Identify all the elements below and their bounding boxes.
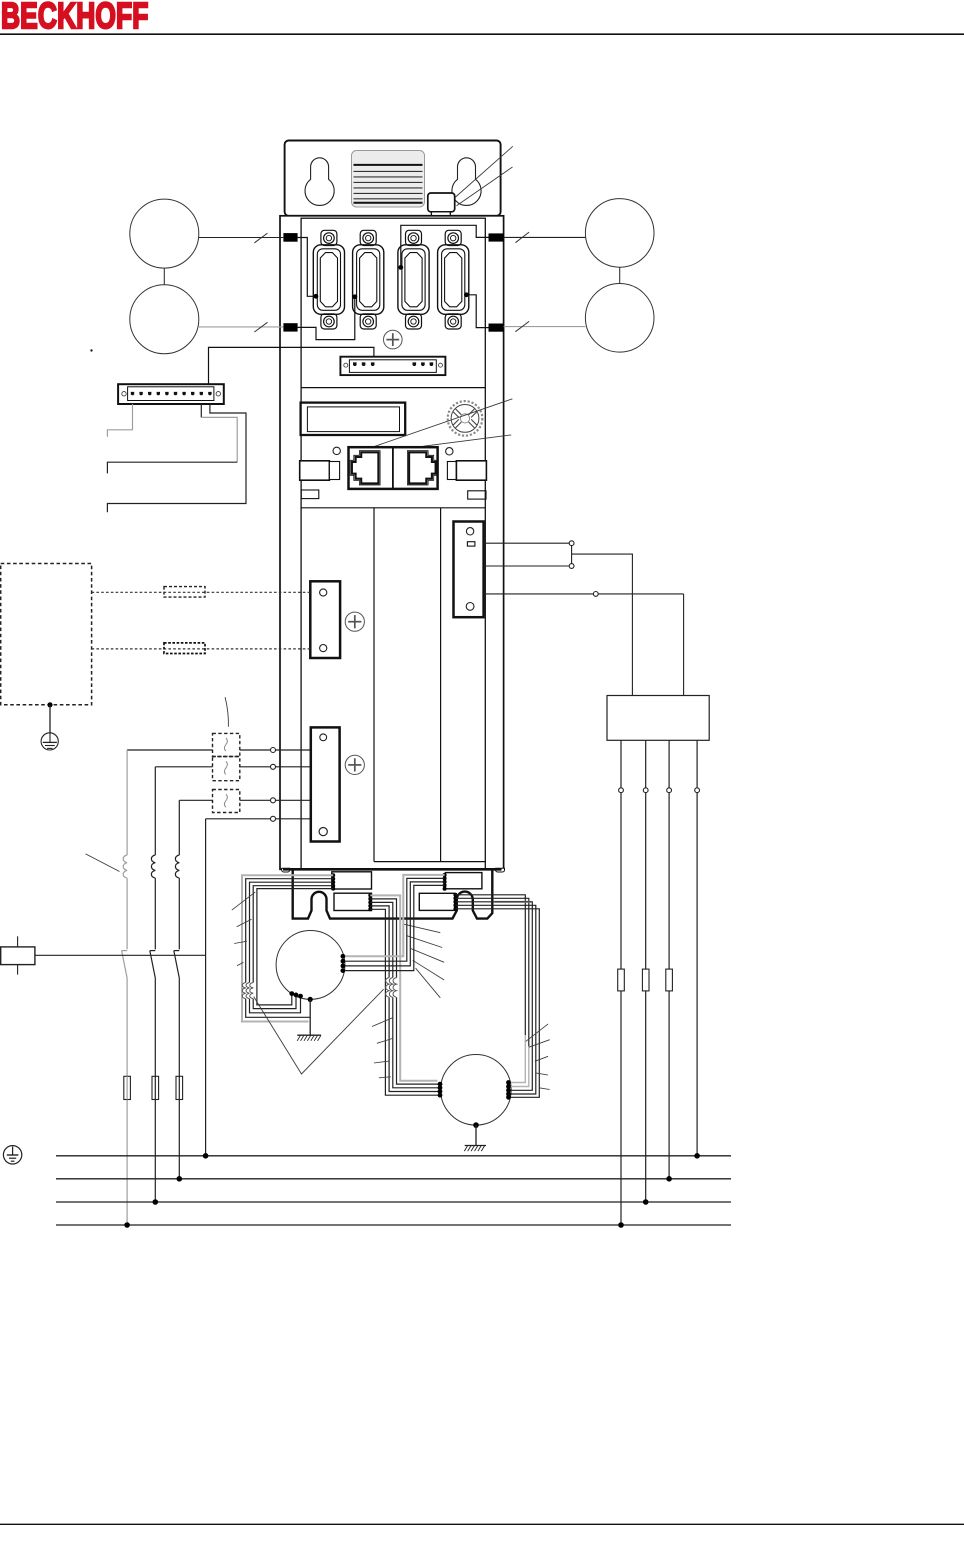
BECKHOFF logo xyxy=(1,0,149,36)
node output3-bus xyxy=(666,1176,672,1182)
left I/O terminal strip xyxy=(118,384,224,404)
header rule xyxy=(0,33,964,35)
node L1-bus xyxy=(124,1222,130,1228)
wire X301 to left terminal strip xyxy=(209,347,374,384)
fan callout leader 2 xyxy=(457,167,513,206)
mains phase line 3 xyxy=(174,800,180,1179)
node output4-bus xyxy=(694,1153,700,1159)
cable 3 wire 4 xyxy=(455,905,535,1094)
cable 1 wire 5 xyxy=(257,889,333,1005)
terminal section bottom edge xyxy=(374,861,485,863)
rj45 callout leader 2 xyxy=(424,435,512,446)
connector X9 (24V aux) xyxy=(454,522,484,618)
device top mounting plate xyxy=(285,141,501,216)
cable 3 wire 5 xyxy=(455,909,539,1098)
cable plug block 3 (motor2 power) xyxy=(419,893,454,910)
supply bus line 2 xyxy=(56,1178,731,1180)
cable 4 shield (grey) xyxy=(345,875,444,956)
pushbutton right xyxy=(447,462,456,480)
protective earth symbol bus xyxy=(3,1146,21,1164)
terminal circle BTB b xyxy=(569,564,574,569)
mains wire L1 to X0 xyxy=(240,749,311,751)
fuse-switch callout leader xyxy=(225,697,228,727)
link between circle3 and circle4 xyxy=(619,267,621,283)
node output1-bus xyxy=(618,1222,624,1228)
block1 pins xyxy=(331,873,335,890)
callout circle 3 xyxy=(585,199,654,268)
footer rule xyxy=(0,1523,964,1525)
internal wire clamp1 to X1 xyxy=(298,238,316,297)
block3 pins xyxy=(453,893,457,911)
mains phase line 2 xyxy=(150,767,156,1202)
shield clamp ferrite right 2 xyxy=(489,324,504,332)
I/O wire B xyxy=(200,404,202,418)
supply box output 4 xyxy=(695,740,700,1156)
cable2 fan callout ticks xyxy=(403,924,444,998)
I/O wire A (grey) xyxy=(107,404,132,437)
device body outline xyxy=(280,216,504,870)
supply box output 2 xyxy=(642,740,649,1202)
label plate right xyxy=(468,491,486,499)
dashed control wire 2 xyxy=(92,648,311,650)
mains wire L2 to X0 xyxy=(240,766,311,768)
wire 24V to supply box xyxy=(683,594,685,696)
cable1 callout ticks xyxy=(232,892,256,966)
protective earth symbol PLC xyxy=(41,733,58,750)
fuse F1 xyxy=(124,1076,131,1099)
pushbutton left xyxy=(300,461,330,480)
motor1 terminal nodes xyxy=(289,991,312,1002)
cable line circle1 to clamp xyxy=(199,237,284,239)
X9 wire BTB contact a xyxy=(484,542,569,544)
node L3-bus xyxy=(177,1176,183,1182)
cable 1 shield (grey) xyxy=(242,875,333,1021)
RJ45 double jack block xyxy=(349,447,438,489)
cable 3 wire 3 xyxy=(455,902,532,1091)
node X1 pin xyxy=(314,294,319,299)
cable3 callout ticks xyxy=(526,1024,550,1090)
mains wire PE to X0 xyxy=(206,818,311,820)
cable plug block 2 (motor1 power) xyxy=(334,893,372,910)
cable 2 wire 2 xyxy=(370,899,440,1084)
I/O wire C xyxy=(107,404,246,512)
cable plug block 4 (motor2 feedback) xyxy=(445,873,482,889)
cable 1 wire 4 xyxy=(253,886,333,1009)
cable 2 wire 5 xyxy=(370,909,440,1095)
cable 2 ferrite squiggles xyxy=(386,978,397,998)
cable line circle2 to clamp (grey) xyxy=(199,326,284,328)
D-sub connector X2 xyxy=(353,230,384,329)
D-sub connector X1 xyxy=(313,230,344,329)
main contactor coil xyxy=(1,947,35,965)
node X3 pin xyxy=(398,265,403,270)
node X2 pin xyxy=(352,294,357,299)
cable 3 wire 1 xyxy=(455,895,525,1035)
panel divider below connector section xyxy=(301,387,485,389)
terminal circle 24V xyxy=(593,592,598,597)
motor 2 xyxy=(441,1055,512,1126)
X301 pins xyxy=(353,362,433,366)
keyhole mounting slot left xyxy=(305,158,334,206)
cable break slash 4 xyxy=(515,321,529,331)
cable2 left callout ticks xyxy=(372,1018,393,1078)
LED left xyxy=(333,447,340,454)
fuse F3 xyxy=(176,1076,183,1099)
cable line clamp to circle4 (grey) xyxy=(504,326,586,328)
node L2-bus xyxy=(153,1199,159,1205)
internal wire clamp2 to X2 xyxy=(298,297,355,340)
I/O strip pins xyxy=(131,392,212,395)
supply bus line 4 xyxy=(56,1224,731,1226)
choke callout leader xyxy=(86,854,120,872)
cable tray outline xyxy=(293,869,493,918)
supply bus line 1 xyxy=(56,1155,731,1157)
RJ45 jack left xyxy=(352,452,379,483)
cable 4 wire 4 xyxy=(345,885,444,970)
cable 4 wire 2 xyxy=(345,878,444,961)
cable break slash 3 xyxy=(515,232,529,243)
shield clamp ferrite left 2 xyxy=(283,323,297,331)
cable 2 wire 4 xyxy=(370,906,440,1092)
dashed connector block 2 xyxy=(164,643,205,654)
fan callout leader 1 xyxy=(455,146,513,197)
cable 1 wire 3 xyxy=(250,882,334,1013)
motor1 ground symbol xyxy=(297,1035,321,1041)
PLC dashed box xyxy=(1,564,92,705)
block4 pins xyxy=(443,873,447,891)
X9 wire BTB contact b xyxy=(484,565,569,567)
control fuse box 2 xyxy=(213,757,240,781)
mains wire L3 to X0 xyxy=(240,799,311,801)
cable 1 ferrite squiggles xyxy=(242,983,253,999)
front panel inner frame xyxy=(301,218,485,869)
dashed connector block 1 xyxy=(164,587,205,598)
connector X8 (enable) xyxy=(310,581,340,658)
device foot right xyxy=(496,868,505,872)
fuse F2 xyxy=(152,1076,159,1099)
node PE-bus xyxy=(203,1153,209,1159)
ventilation grille xyxy=(352,151,425,208)
motor1 ground wire xyxy=(309,999,311,1035)
cable break slash 1 xyxy=(254,233,267,243)
mains PE line xyxy=(205,819,207,1156)
rj45 callout leader 1 xyxy=(374,399,513,447)
D-sub connector X4 xyxy=(438,230,469,329)
motor2 ground wire xyxy=(475,1125,477,1145)
shield clamp ferrite right 1 xyxy=(489,233,504,241)
device foot left xyxy=(282,868,290,872)
panel screw mid xyxy=(345,612,364,631)
svg-text:BECKHOFF: BECKHOFF xyxy=(1,0,149,36)
panel screw upper xyxy=(384,330,403,349)
callout circle 2 xyxy=(130,285,199,354)
supply box xyxy=(607,696,709,741)
cable 2 wire 3 xyxy=(370,902,440,1087)
dashed control wire 1 xyxy=(92,591,311,593)
cable 4 wire 3 xyxy=(345,882,444,966)
label plate left xyxy=(301,490,319,499)
terminal circle BTB a xyxy=(569,541,574,546)
control fuse box 1 xyxy=(213,733,240,756)
cable 3 wire 2 xyxy=(455,898,528,1046)
cable plug block 1 (feedback) xyxy=(332,872,372,889)
terminal section vertical divider 2 xyxy=(440,508,442,862)
supply box output 3 xyxy=(666,740,673,1179)
cable 1 wire 2 xyxy=(246,879,334,1018)
internal wire X4 to clamp right 2 xyxy=(466,295,488,328)
panel divider above terminal section xyxy=(301,507,485,509)
callout circle 1 xyxy=(130,199,199,268)
LCD display window xyxy=(301,403,406,435)
motor2 ground symbol xyxy=(464,1146,486,1152)
front signal terminal strip X301 xyxy=(340,357,445,375)
node output2-bus xyxy=(643,1199,649,1205)
X9 wire 24V xyxy=(484,593,684,595)
fan supply connector xyxy=(428,193,455,212)
device bottom edge xyxy=(283,868,502,871)
node PLC earth xyxy=(47,702,52,707)
cable 2 shield (grey) xyxy=(370,895,437,1080)
wire PLC to earth xyxy=(49,705,51,733)
shield V callout xyxy=(254,989,384,1074)
shield clamp ferrite left 1 xyxy=(283,233,297,242)
rotary address switch xyxy=(448,401,483,436)
motor2 ground node xyxy=(473,1122,479,1128)
RJ45 jack right xyxy=(409,452,436,483)
node X4 pin xyxy=(464,292,469,297)
BTB link wire xyxy=(571,546,573,564)
motor1 right terminal nodes xyxy=(341,954,346,973)
panel screw lower xyxy=(345,755,364,774)
callout circle 4 xyxy=(585,284,654,353)
connector X0 (mains) xyxy=(311,727,340,841)
link between circle1 and circle2 xyxy=(163,268,165,285)
stray dot xyxy=(90,349,92,351)
keyhole mounting slot right xyxy=(452,158,481,206)
cable line clamp to circle3 xyxy=(504,236,586,238)
mains phase line 1 (grey) xyxy=(122,750,128,1225)
contactor linkage line xyxy=(35,954,206,956)
supply box output 1 xyxy=(618,740,625,1225)
supply bus line 3 xyxy=(56,1201,731,1203)
wire BTB to supply box xyxy=(572,554,633,695)
D-sub connector X3 xyxy=(398,230,429,329)
motor 1 xyxy=(276,931,345,1000)
terminal section vertical divider 1 xyxy=(373,508,375,862)
control fuse box 3 xyxy=(213,790,240,813)
LED right xyxy=(446,448,453,455)
block2 pins xyxy=(368,893,372,911)
motor2 left terminal nodes xyxy=(438,1082,443,1098)
internal wire X3 to clamp right 1 xyxy=(401,225,489,267)
cable break slash 2 xyxy=(254,322,267,332)
motor2 right terminal nodes xyxy=(506,1080,511,1100)
cable 3 shield exit segment (grey) xyxy=(495,901,532,903)
